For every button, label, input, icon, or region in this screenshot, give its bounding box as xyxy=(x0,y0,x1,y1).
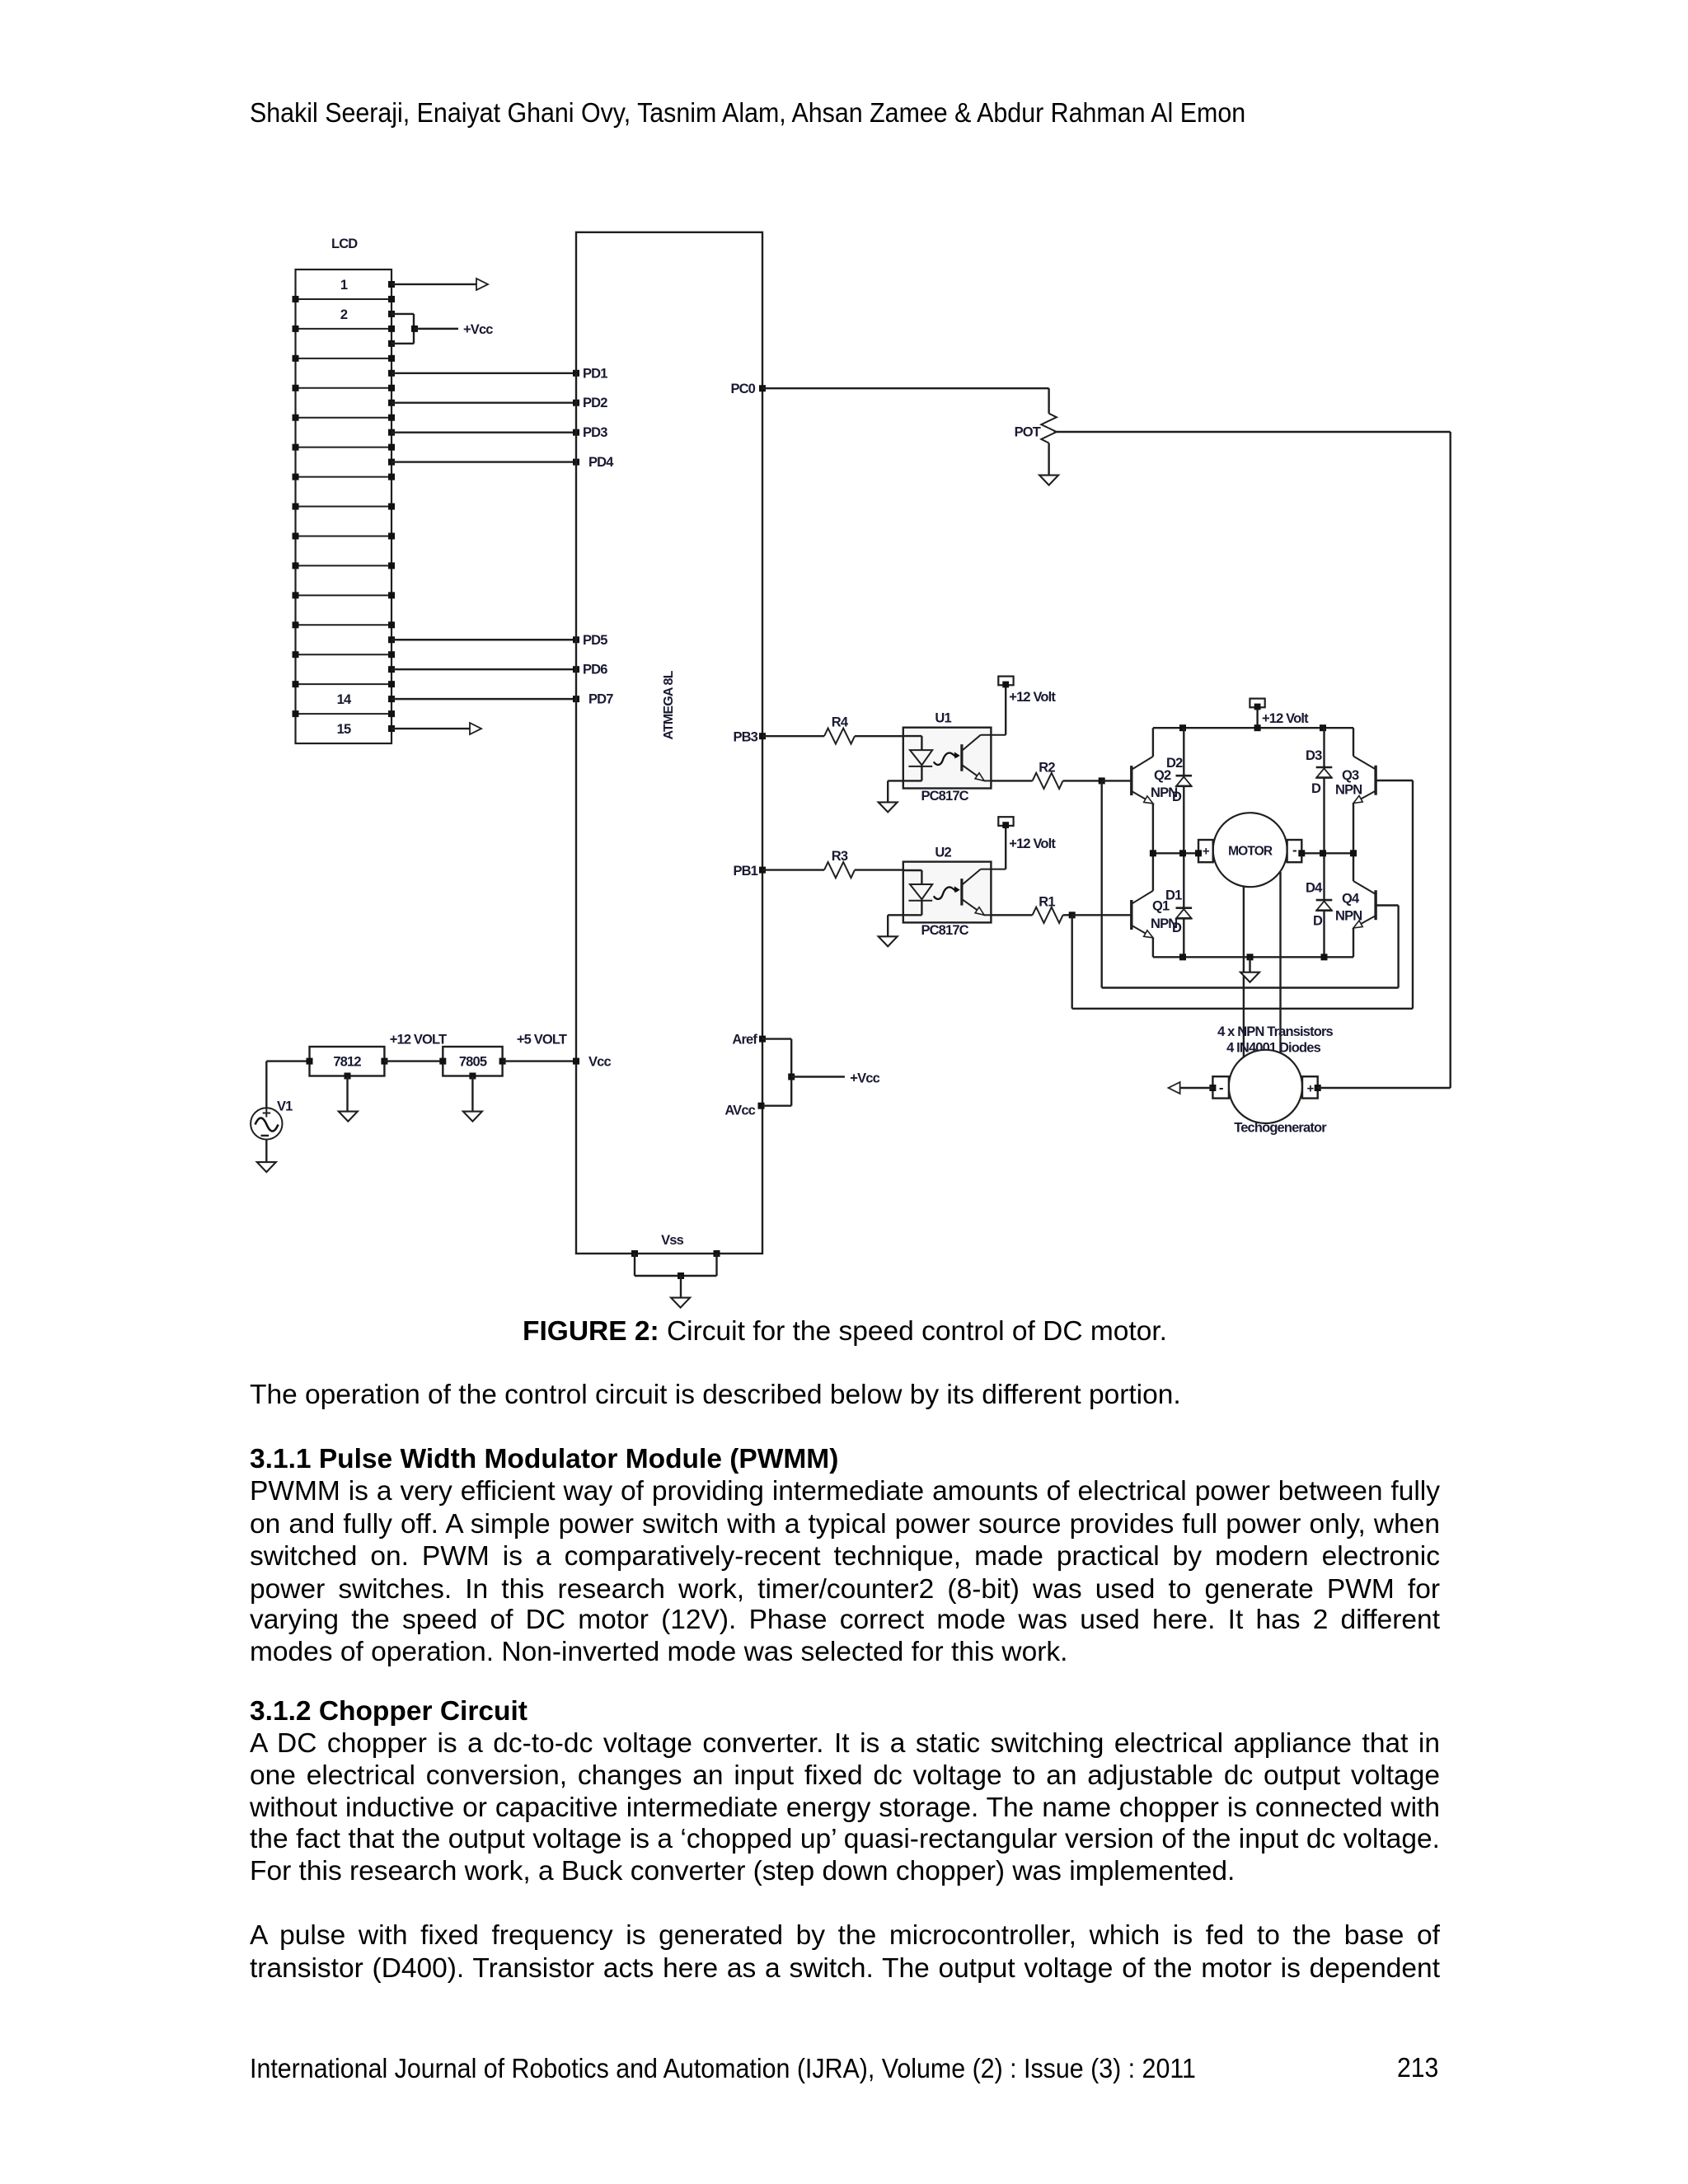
svg-text:PB3: PB3 xyxy=(733,730,757,745)
microcontroller U3 ATMEGA 8L box xyxy=(576,232,762,1254)
wire PB3 to R4 xyxy=(759,733,766,739)
wire V1 to 7812 input xyxy=(265,1062,267,1110)
svg-text:LCD: LCD xyxy=(331,237,358,251)
ground (POT) xyxy=(1039,476,1058,485)
svg-text:14: 14 xyxy=(337,692,352,707)
resistor R2 xyxy=(1033,773,1063,789)
wire POT wiper to right rail xyxy=(1054,431,1451,433)
bottom rail xyxy=(1153,956,1353,958)
ground (U1) xyxy=(879,802,898,812)
wire POT bottom to ground xyxy=(1048,443,1049,476)
wire Q2 emitter to motor+ rail xyxy=(1152,804,1154,853)
optocoupler U1 PC817C box xyxy=(903,728,992,789)
LCD row divider 8 xyxy=(296,506,392,508)
LCD left pin 14 xyxy=(293,681,299,687)
svg-text:D: D xyxy=(1313,914,1323,929)
techogenerator - terminal xyxy=(1212,1076,1229,1098)
wire node to Q2 base xyxy=(1102,780,1132,781)
LCD row divider 6 xyxy=(296,447,392,448)
wire LCD pin1 to arrow xyxy=(388,281,395,288)
wire Q3 base return to R1 node xyxy=(1376,780,1413,781)
wire Q1 emitter to bottom rail xyxy=(1152,938,1154,958)
LCD left pin 10 xyxy=(293,562,299,569)
LCD row divider 3 xyxy=(296,358,392,359)
node Vcc pin xyxy=(573,1058,579,1065)
svg-text:-: - xyxy=(1292,842,1296,858)
transistor Q2 NPN xyxy=(1130,766,1132,795)
+12 Volt top rail xyxy=(1153,727,1353,729)
wire techogenerator + to right rail xyxy=(1315,1085,1321,1091)
V1 minus sign xyxy=(261,1135,270,1137)
LCD row divider 7 xyxy=(296,476,392,478)
motor - rail xyxy=(1301,852,1353,854)
svg-text:+: + xyxy=(1203,845,1210,859)
node bottom rail / D1 xyxy=(1179,954,1186,960)
svg-text:+12 Volt: +12 Volt xyxy=(1009,837,1056,851)
svg-text:15: 15 xyxy=(337,722,351,737)
U2 emitter arrow xyxy=(975,907,984,916)
svg-text:PC817C: PC817C xyxy=(921,923,968,938)
wire Q4 base return to R2 node xyxy=(1376,904,1399,906)
diode D3 xyxy=(1316,766,1333,769)
LCD left pin 5 xyxy=(293,415,299,421)
svg-text:+12 Volt: +12 Volt xyxy=(1262,711,1309,726)
power flag +12 Volt (H-bridge) xyxy=(1256,707,1258,728)
svg-text:NPN: NPN xyxy=(1335,783,1362,798)
svg-text:+12 VOLT: +12 VOLT xyxy=(390,1033,447,1047)
svg-text:POT: POT xyxy=(1015,425,1041,440)
node bottom rail / D4 xyxy=(1321,954,1328,960)
svg-text:Vss: Vss xyxy=(661,1233,683,1248)
Vss pins and ground xyxy=(631,1250,638,1257)
svg-text:D: D xyxy=(1172,921,1182,935)
wire Q2 collector to top rail xyxy=(1152,728,1154,757)
node motor+ / Q1Q2 xyxy=(1150,850,1156,856)
svg-text:Vcc: Vcc xyxy=(588,1055,611,1070)
U2 phototransistor xyxy=(960,879,963,906)
wire V1 to ground xyxy=(265,1140,267,1163)
LCD left pin 7 xyxy=(293,474,299,480)
svg-text:R1: R1 xyxy=(1039,894,1055,909)
wire D2 branch xyxy=(1183,728,1184,853)
LCD left pin 1 xyxy=(293,296,299,302)
node bottom rail / ground xyxy=(1247,954,1254,960)
svg-text:MOTOR: MOTOR xyxy=(1228,845,1273,859)
V1 plus sign xyxy=(263,1113,271,1114)
optocoupler U2 PC817C box xyxy=(903,862,992,923)
svg-text:+12 Volt: +12 Volt xyxy=(1009,690,1056,705)
7805 ground xyxy=(469,1073,476,1080)
motor M1 xyxy=(1213,813,1287,887)
LCD left pin 12 xyxy=(293,621,299,628)
wire 7812 to 7805 xyxy=(384,1060,443,1062)
wire D1 branch xyxy=(1183,853,1184,957)
svg-text:PD4: PD4 xyxy=(588,455,614,470)
svg-text:D1: D1 xyxy=(1165,888,1182,903)
svg-text:R3: R3 xyxy=(832,849,848,864)
wire Q3 emitter to motor- rail xyxy=(1353,804,1354,854)
ground (7812) xyxy=(339,1112,358,1122)
LCD left pin 13 xyxy=(293,651,299,658)
svg-text:7805: 7805 xyxy=(459,1055,487,1070)
LCD row divider 11 xyxy=(296,594,392,596)
motor + terminal xyxy=(1198,840,1213,862)
node motor- / Q3Q4 xyxy=(1350,850,1357,856)
wire LCD to PD1 xyxy=(388,370,395,377)
LCD left pin 8 xyxy=(293,504,299,510)
techogenerator + terminal xyxy=(1302,1076,1318,1098)
wire bottom rail to ground xyxy=(1249,957,1250,972)
wire right rail down to techogenerator + xyxy=(1449,432,1451,1088)
svg-text:U2: U2 xyxy=(935,846,951,860)
wire Q3 collector to top rail xyxy=(1353,728,1354,756)
node +Vcc tap xyxy=(411,326,418,332)
wire PC0 to POT xyxy=(759,385,766,391)
resistor R1 xyxy=(1033,907,1063,923)
arrow LCD pin15 xyxy=(470,723,481,734)
U2 LED cathode wire to ground xyxy=(888,914,903,916)
svg-text:R2: R2 xyxy=(1039,760,1055,775)
potentiometer POT xyxy=(1041,414,1057,443)
svg-text:-: - xyxy=(1219,1080,1223,1096)
LCD left pin 11 xyxy=(293,592,299,598)
transistor Q1 NPN xyxy=(1130,900,1132,930)
LCD row divider 13 xyxy=(296,654,392,655)
svg-text:U1: U1 xyxy=(935,711,951,726)
U1 LED cathode wire to ground xyxy=(888,780,903,781)
svg-text:PD2: PD2 xyxy=(583,396,607,410)
wire 7805 to Vcc xyxy=(503,1060,576,1062)
svg-text:D2: D2 xyxy=(1166,756,1183,771)
node top rail / D2 xyxy=(1179,724,1186,731)
svg-text:PD7: PD7 xyxy=(588,692,613,707)
U1 light coupling arrow xyxy=(934,753,958,766)
node top rail / D3 xyxy=(1320,724,1326,731)
resistor R4 xyxy=(824,729,855,744)
LCD row divider 15 xyxy=(296,713,392,715)
wire Q4 emitter to bottom rail xyxy=(1353,928,1354,957)
wire LCD to PD2 xyxy=(388,400,395,406)
node Aref/AVcc tap xyxy=(788,1074,795,1080)
node R2/Q2 base junction xyxy=(1099,777,1105,784)
svg-text:AVcc: AVcc xyxy=(724,1104,755,1118)
LCD row divider 5 xyxy=(296,417,392,419)
regulator 7805 xyxy=(443,1047,502,1076)
power flag +12 Volt (U2) xyxy=(1005,826,1006,869)
svg-text:D4: D4 xyxy=(1306,881,1323,896)
svg-text:PC817C: PC817C xyxy=(921,789,968,804)
svg-text:PD3: PD3 xyxy=(583,425,607,440)
LCD left pin 9 xyxy=(293,532,299,539)
svg-text:NPN: NPN xyxy=(1335,909,1362,924)
transistor Q4 NPN xyxy=(1374,890,1376,920)
svg-text:+Vcc: +Vcc xyxy=(850,1071,879,1086)
U1 phototransistor xyxy=(960,744,963,771)
ground (V1) xyxy=(257,1162,276,1172)
ground (7805) xyxy=(463,1112,482,1122)
motor - terminal xyxy=(1287,840,1302,862)
arrow techogenerator output xyxy=(1169,1082,1180,1094)
svg-text:Aref: Aref xyxy=(732,1033,757,1047)
svg-text:+: + xyxy=(1307,1082,1315,1096)
svg-text:PC0: PC0 xyxy=(730,382,755,396)
svg-text:D: D xyxy=(1311,781,1321,796)
LCD row divider 9 xyxy=(296,535,392,537)
LCD row divider 12 xyxy=(296,624,392,626)
wire LCD to PD3 xyxy=(388,429,395,436)
regulator 7812 xyxy=(310,1047,385,1076)
motor + rail xyxy=(1153,852,1198,854)
techogenerator G1 xyxy=(1229,1050,1302,1123)
wire D3 branch xyxy=(1323,728,1325,853)
wire LCD to PD7 xyxy=(388,696,395,702)
svg-text:D: D xyxy=(1172,790,1182,804)
motor tacho wires down xyxy=(1243,875,1245,1063)
U1 internal LED xyxy=(903,735,922,737)
arrow LCD pin1 xyxy=(476,279,488,290)
LCD left pin 3 xyxy=(293,355,299,362)
LCD row divider 10 xyxy=(296,565,392,566)
diode D4 xyxy=(1316,899,1333,902)
Aref/AVcc bracket to +Vcc xyxy=(759,1036,766,1043)
pin motor + terminal xyxy=(1195,850,1202,856)
svg-text:4 x NPN Transistors: 4 x NPN Transistors xyxy=(1217,1024,1333,1039)
LCD left pin 4 xyxy=(293,385,299,391)
LCD row divider 14 xyxy=(296,683,392,685)
7812 ground xyxy=(345,1073,351,1080)
svg-text:ATMEGA 8L: ATMEGA 8L xyxy=(662,670,676,739)
wire R2 to node xyxy=(1063,780,1102,781)
wire D4 branch xyxy=(1323,853,1325,957)
wire R3 to U2 xyxy=(855,869,903,870)
LCD connector block xyxy=(296,269,392,743)
node R1/Q1 base junction xyxy=(1069,912,1076,918)
wire LCD to PD4 xyxy=(388,459,395,466)
wire LCD pin15 to arrow xyxy=(388,725,395,732)
wire Q1 collector to motor+ rail xyxy=(1152,853,1154,891)
wire R4 to U1 xyxy=(855,735,903,737)
svg-text:Q4: Q4 xyxy=(1342,892,1360,907)
svg-text:+5 VOLT: +5 VOLT xyxy=(517,1033,567,1047)
resistor R3 xyxy=(824,862,855,878)
svg-text:Q3: Q3 xyxy=(1342,768,1359,783)
svg-text:PD1: PD1 xyxy=(583,366,607,381)
pin motor - terminal xyxy=(1298,850,1305,856)
wire U1 to R2 xyxy=(991,780,1032,781)
wire LCD to PD5 xyxy=(388,636,395,643)
diode D1 xyxy=(1176,907,1193,909)
LCD left pin 15 xyxy=(293,710,299,717)
wire LCD to PD6 xyxy=(388,666,395,673)
node motor+ / D1D2 xyxy=(1179,850,1186,856)
LCD row divider 2 xyxy=(296,328,392,330)
ground (Vss) xyxy=(671,1298,690,1308)
node Vss junction xyxy=(678,1272,684,1279)
ground (H-bridge) xyxy=(1240,972,1259,982)
svg-text:7812: 7812 xyxy=(333,1055,361,1070)
svg-text:PB1: PB1 xyxy=(733,864,757,879)
U1 emitter arrow xyxy=(975,773,984,781)
LCD left pin 2 xyxy=(293,326,299,332)
node motor- / D3D4 xyxy=(1320,850,1326,856)
diode D2 xyxy=(1176,775,1193,777)
LCD row divider 1 xyxy=(296,298,392,300)
svg-text:V1: V1 xyxy=(277,1099,293,1114)
node top rail / +12V xyxy=(1254,724,1261,731)
wire PB1 to R3 xyxy=(759,867,766,874)
LCD row divider 4 xyxy=(296,387,392,389)
svg-text:PD6: PD6 xyxy=(583,663,607,677)
LCD left pin 6 xyxy=(293,444,299,451)
wire LCD pins 2-3 +Vcc bracket xyxy=(388,311,395,317)
svg-text:1: 1 xyxy=(340,278,348,293)
U2 light coupling arrow xyxy=(934,887,958,899)
wire node to Q1 base xyxy=(1072,914,1132,916)
svg-text:Techogenerator: Techogenerator xyxy=(1234,1121,1327,1136)
svg-text:2: 2 xyxy=(340,307,348,322)
ground (U2) xyxy=(879,936,898,946)
svg-text:+Vcc: +Vcc xyxy=(463,322,493,337)
U2 internal LED xyxy=(903,869,922,871)
wire Q4 collector to motor- rail xyxy=(1353,853,1354,881)
power flag +12 Volt (U1) xyxy=(1005,685,1006,734)
svg-text:D3: D3 xyxy=(1306,748,1322,763)
wire U2 to R1 xyxy=(991,914,1032,916)
wire techogenerator - to arrow xyxy=(1209,1085,1216,1091)
transistor Q3 NPN xyxy=(1374,766,1376,795)
wire R1 to node xyxy=(1063,914,1072,916)
svg-text:PD5: PD5 xyxy=(583,633,607,648)
svg-text:R4: R4 xyxy=(832,715,849,730)
